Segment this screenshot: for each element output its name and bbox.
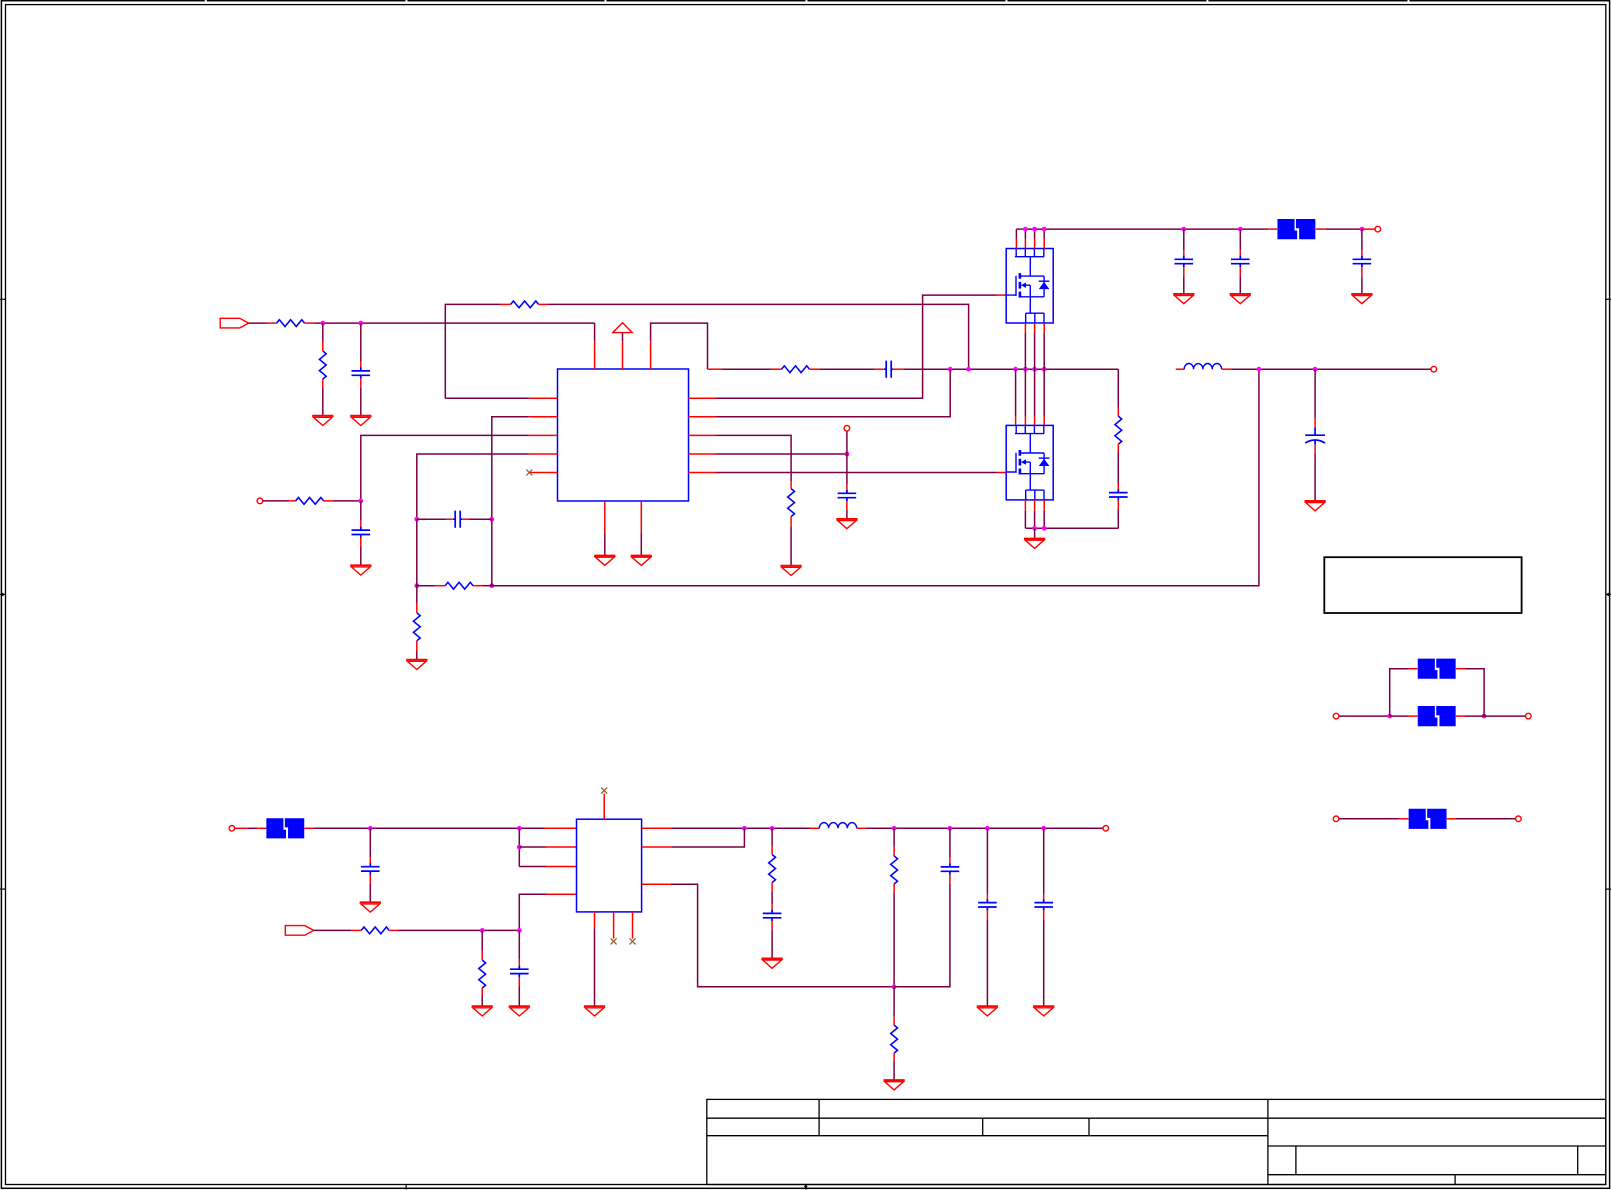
wire R7 right	[483, 585, 492, 587]
pin red U2 pin9	[642, 846, 672, 848]
wire FB3 branch left	[1390, 669, 1409, 716]
pin red C8 bottom	[1361, 267, 1363, 276]
pin red C9 top	[1117, 484, 1119, 493]
wire bst to R4	[722, 368, 772, 370]
junction VIN b	[1032, 227, 1037, 232]
wire U2 pin3 left	[519, 866, 546, 868]
capacitor C7	[1231, 256, 1250, 267]
capacitor C8	[1353, 256, 1372, 267]
wire pin13 to Q1 gate	[717, 295, 997, 398]
pin red C11 bottom	[369, 875, 371, 884]
resistor R10	[361, 927, 389, 934]
capacitor C13	[763, 910, 782, 921]
wire pin3 to EN node	[361, 435, 529, 501]
junction FB pair left	[1387, 714, 1392, 719]
pin red R12 bottom	[771, 883, 773, 892]
pin red C14 top	[949, 858, 951, 867]
resistor R2	[319, 351, 326, 379]
wire C6 gnd	[1183, 276, 1185, 294]
junction VIN c	[1042, 227, 1047, 232]
wire R6 gnd	[416, 651, 418, 660]
port P11 left	[1333, 816, 1339, 822]
wire C11 top	[369, 828, 371, 857]
transistor Q1	[1006, 249, 1053, 324]
capacitor C15	[978, 899, 997, 910]
pin red R14 bottom	[893, 1053, 895, 1062]
zone gaps top border	[205, 0, 1410, 2]
junction C11 tap	[368, 826, 373, 831]
pin red U1 pin1	[529, 397, 558, 399]
capacitor C12	[510, 966, 529, 977]
pin red U1 pin4	[529, 453, 558, 455]
pin red Q1 drain stubs	[1016, 239, 1044, 249]
ground below C3	[350, 565, 371, 575]
wire U1 pin16 up	[594, 323, 596, 341]
pin red C6 bottom	[1183, 267, 1185, 276]
junction R13 tap	[892, 826, 897, 831]
port P7 adj	[285, 926, 313, 936]
wire R3 to SW line	[548, 304, 968, 369]
junction SW c	[1032, 367, 1037, 372]
junction R11 tap	[480, 928, 485, 933]
pin red R1 right	[305, 322, 315, 324]
pin red C13 top	[771, 904, 773, 913]
resistor R4	[782, 366, 810, 373]
pin red C4 left	[446, 518, 452, 520]
junction C8 tap	[1360, 227, 1365, 232]
junction U2 en	[517, 845, 522, 850]
wire R6 top	[416, 586, 418, 604]
wire R9 to C9	[1117, 452, 1119, 484]
pin red C14 bottom	[949, 875, 951, 884]
pin red C7 top	[1239, 250, 1241, 259]
wire C8 gnd	[1361, 276, 1363, 294]
resistor R3	[511, 301, 539, 308]
wire R1 to node IN	[314, 322, 594, 324]
pin red U2 pin gnd	[594, 912, 596, 928]
pin red R11 bottom	[481, 988, 483, 995]
pin red R13 top	[893, 847, 895, 856]
pin red C13 bottom	[771, 921, 773, 930]
port P12 right	[1516, 816, 1522, 822]
wire R5 to EN node	[333, 500, 361, 502]
capacitor C2	[884, 361, 894, 378]
wire pair to port	[1484, 715, 1525, 717]
pin red R13 bottom	[893, 884, 895, 893]
pin red U2 pin3	[546, 866, 577, 868]
ground U2	[584, 1006, 605, 1016]
pin red R9 top	[1117, 408, 1119, 416]
resistor R11	[479, 960, 486, 988]
junction sw2 link	[742, 826, 747, 831]
pin red Q2 drain stubs	[1016, 416, 1045, 425]
wire R10 to dividers	[399, 929, 520, 931]
capacitor C16	[1034, 899, 1053, 910]
pin red R14 top	[893, 1017, 895, 1025]
pin red R4 left	[772, 368, 782, 370]
pin red R5 left	[290, 500, 296, 502]
wire C12 gnd	[518, 986, 520, 1006]
wire R11 top	[481, 930, 483, 950]
pin red U2 pin8	[642, 827, 672, 829]
pin red FB4 left	[1409, 715, 1418, 717]
junction C7 tap	[1238, 227, 1243, 232]
wire FB col left	[416, 519, 418, 586]
capacitor C14	[941, 864, 960, 875]
wire FB4 out	[1465, 715, 1484, 717]
resistor R7	[445, 582, 473, 589]
pin red FB1 left	[1268, 228, 1277, 230]
pin red C2 left	[875, 368, 884, 370]
capacitor C6	[1175, 256, 1194, 267]
ground below C12	[509, 1006, 530, 1016]
wire C13 gnd	[771, 930, 773, 958]
junction fb2 node	[892, 984, 897, 989]
wire L1 to VOUT	[1232, 368, 1431, 370]
port P9 left	[1333, 713, 1339, 719]
junction port P4	[845, 452, 850, 457]
wire pin6 to Q2 gate	[717, 472, 997, 474]
junction FB lower right	[489, 583, 494, 588]
wire R2 top	[322, 323, 324, 342]
zone tick left C	[0, 888, 6, 890]
pin red C7 bottom	[1239, 267, 1241, 276]
pin red R3 right	[539, 303, 549, 305]
pin red Q1 source stubs	[1025, 323, 1044, 333]
junction C1 tap	[358, 321, 363, 326]
pin red R12 top	[771, 845, 773, 854]
junction SW b	[1023, 367, 1028, 372]
pin red Q1 gate	[997, 294, 1007, 296]
wire FB1 to port	[1326, 228, 1362, 230]
port P5 vout	[1431, 366, 1437, 372]
junction C16 tap	[1041, 826, 1046, 831]
pin red C1 top	[360, 362, 362, 371]
no-connect U2 pin7	[601, 788, 607, 794]
capacitor C11	[361, 863, 380, 874]
pin red C10 bottom	[1314, 445, 1316, 454]
pin red R8 top	[790, 481, 792, 488]
capacitor C3	[352, 527, 371, 538]
wire C12 top	[518, 930, 520, 959]
junction FB upper right	[489, 517, 494, 522]
ferrite bead FB3	[1418, 659, 1456, 679]
capacitor C5	[838, 490, 857, 501]
wire VCC stem	[622, 333, 624, 342]
ferrite bead FB5	[1409, 809, 1447, 829]
inductor L1	[1184, 364, 1221, 370]
wire P9 to split	[1339, 715, 1390, 717]
ferrite bead FB2	[266, 818, 304, 838]
pin red U1 pin11	[689, 434, 717, 436]
transistor Q2	[1006, 425, 1053, 500]
pin red C15 top	[986, 894, 988, 903]
title block	[707, 1099, 1606, 1184]
pin red C12 top	[518, 960, 520, 969]
pin red C3 bottom	[360, 538, 362, 547]
resistor R1	[277, 320, 305, 327]
pin red R9 bottom	[1117, 444, 1119, 451]
junction SW d	[1042, 367, 1047, 372]
pin red P6 to FB2	[235, 827, 248, 829]
wire R11 gnd	[481, 996, 483, 1007]
pin red U2 pin5 nc	[613, 912, 615, 939]
zone tick left A	[0, 298, 6, 300]
junction VOUT fb	[1257, 367, 1262, 372]
no-connect U2 pin6	[630, 938, 636, 944]
capacitor C4	[453, 511, 463, 528]
pin red C15 bottom	[986, 910, 988, 919]
wire R7 left	[417, 585, 435, 587]
IC U1	[558, 369, 689, 501]
pin red U1 pin6	[689, 472, 717, 474]
ground below R14	[884, 1080, 905, 1090]
no-connect U2 pin5	[611, 938, 617, 944]
ground below R11	[472, 1006, 493, 1016]
junction C12 tap	[517, 928, 522, 933]
wire C16 top	[1043, 828, 1045, 893]
no-connect U1 pin5	[526, 470, 532, 476]
port P1 input	[220, 318, 248, 328]
zone tick right center	[1606, 593, 1611, 597]
wire U2 pin2 left	[519, 846, 546, 848]
junction C14 tap	[948, 826, 953, 831]
junction snubber2 tap	[770, 826, 775, 831]
wire C16 gnd	[1043, 920, 1045, 1007]
wire FB5 to port	[1456, 818, 1515, 820]
ground below C11	[360, 902, 381, 912]
pin red R6 bottom	[416, 641, 418, 651]
port P2 enable	[257, 498, 263, 504]
wire EN to C3	[360, 501, 362, 521]
wire U2 gnd	[594, 928, 596, 1006]
pin red U1 pin2	[529, 416, 558, 418]
wire P11 to FB5	[1339, 818, 1399, 820]
port P6 input2	[229, 826, 235, 832]
resistor R12	[769, 855, 776, 883]
ground below C16	[1033, 1006, 1054, 1016]
ground below R6	[406, 660, 427, 670]
pin red U2 pin6 nc	[632, 912, 634, 939]
pin red U1 pin13	[689, 397, 717, 399]
junction PGND a	[1032, 526, 1037, 531]
ferrite bead FB4	[1418, 706, 1456, 726]
wire U2 en link	[518, 828, 520, 866]
capacitor C1	[352, 368, 371, 379]
pin red C9 bottom	[1117, 500, 1119, 509]
wire U2 pin4 left	[519, 894, 546, 930]
wire C14 top	[949, 828, 951, 858]
wire C7 gnd	[1239, 276, 1241, 294]
wire P4 node to C5	[846, 454, 848, 484]
zone tick right A	[1606, 298, 1611, 300]
wire C6 top	[1183, 229, 1185, 250]
junction PGND b	[1042, 526, 1047, 531]
pin red C8 top	[1361, 250, 1363, 259]
junction FB pair right	[1482, 714, 1487, 719]
junction SW a	[1013, 367, 1018, 372]
ground below C7	[1230, 294, 1251, 304]
wire C4 right	[469, 518, 492, 520]
wire U2 out bus	[672, 827, 810, 829]
pin red C3 top	[360, 521, 362, 530]
junction EN node	[358, 499, 363, 504]
wire pin9 to bus	[672, 828, 744, 847]
pin red C16 bottom	[1043, 910, 1045, 919]
wire PGND bus	[1025, 527, 1118, 529]
wire pin10 to fb2 bus	[671, 884, 894, 987]
wire pin1 left	[445, 397, 529, 399]
zone tick right C	[1606, 888, 1611, 890]
pin red C4 right	[463, 518, 469, 520]
pin red Q2 source stubs	[1025, 500, 1044, 511]
pin red R2 bottom	[322, 379, 324, 388]
junction C10 tap	[1313, 367, 1318, 372]
ground below C13	[762, 959, 783, 969]
pin red U2 pin1	[545, 827, 577, 829]
IC U2	[577, 819, 642, 912]
junction pin10 riser	[948, 367, 953, 372]
pin red U2 pin4	[546, 893, 577, 895]
ground below R8	[781, 566, 802, 576]
pin red R10 left	[351, 929, 361, 931]
wire P4 down	[846, 431, 848, 454]
wire pin11 to R8	[717, 435, 792, 481]
resistor R6	[413, 613, 420, 641]
wire C7 top	[1239, 229, 1241, 250]
ground U1 pin8	[594, 556, 615, 566]
pin red C1 bottom	[360, 379, 362, 388]
wire gnd stem Q2	[1034, 528, 1036, 538]
zone tick bottom 1	[405, 1185, 407, 1190]
wire VIN bus	[1016, 228, 1268, 230]
ground below C6	[1173, 294, 1194, 304]
wire FB3 branch right	[1465, 669, 1484, 716]
wire C14 to fb2 bus	[894, 884, 950, 987]
pin red U1 pin15	[622, 341, 624, 369]
pin red C10 top	[1314, 418, 1316, 428]
wire Q1 source to SW	[1025, 333, 1044, 369]
wire R13 to fb2 bus	[893, 893, 895, 986]
pin red R3 left	[501, 303, 511, 305]
wire pin2 to FB upper	[492, 417, 529, 519]
resistor R9	[1115, 416, 1122, 444]
resistor R5	[296, 498, 324, 505]
capacitor C9	[1109, 489, 1128, 500]
pin red U1 pin8	[604, 501, 606, 533]
pin red U2 pin7 top	[603, 794, 605, 820]
pin red U1 pin5	[529, 472, 557, 474]
pin red to P3	[1362, 228, 1375, 230]
junction R2 tap	[320, 321, 325, 326]
wire P2 to R5	[263, 500, 290, 502]
wire pin10 to port node	[717, 453, 847, 455]
pin red L2 right	[857, 827, 867, 829]
pin red R7 left	[435, 585, 446, 587]
pin red R8 bottom	[790, 517, 792, 527]
pin red R4 right	[810, 368, 820, 370]
pin red Q2 gate	[997, 472, 1006, 474]
wire R4 to C2	[819, 368, 875, 370]
pin red bst corner	[708, 368, 723, 370]
wire C3 gnd	[360, 547, 362, 565]
junction C15 tap	[985, 826, 990, 831]
pin red FB5 right	[1447, 818, 1456, 820]
wire C11 gnd	[369, 884, 371, 903]
wire Q1 drain risers	[1016, 229, 1044, 238]
pin red U1 pin9	[640, 501, 642, 533]
wire R8 gnd	[790, 527, 792, 566]
wire pin9 gnd	[640, 533, 642, 556]
pin red FB4 right	[1456, 715, 1465, 717]
resistor R13	[891, 856, 898, 884]
pin red C5 top	[846, 484, 848, 493]
pin red U1 pin10	[689, 453, 717, 455]
wire pin12 to SW	[717, 369, 951, 417]
ground below C10	[1305, 501, 1326, 511]
pin red FB2 right	[304, 827, 314, 829]
port P10 right	[1526, 713, 1532, 719]
port P8 vout2	[1103, 826, 1109, 832]
junction U2 vin	[517, 826, 522, 831]
pin red C16 top	[1043, 894, 1045, 903]
pin red R2 top	[322, 342, 324, 351]
wire R13 top	[893, 828, 895, 847]
wire R14 top	[893, 987, 895, 1017]
pin red FB3 left	[1409, 668, 1418, 670]
pin red C11 top	[369, 857, 371, 866]
pin red U1 pin14	[650, 341, 652, 369]
ground below C15	[977, 1006, 998, 1016]
wire C1 to gnd	[360, 388, 362, 416]
wire U1 pin14 bst	[651, 323, 708, 369]
pin red C5 bottom	[846, 501, 848, 510]
port P4 mode	[844, 426, 850, 432]
pin red R10 right	[389, 929, 398, 931]
wire pin4 to FB lower	[417, 454, 529, 519]
port P3 vin	[1375, 226, 1381, 232]
pin red U1 pin16	[594, 341, 596, 369]
pin red FB3 right	[1456, 668, 1465, 670]
pin red C2 right	[894, 368, 904, 370]
wire R9 top	[1117, 369, 1119, 408]
ground below R2	[312, 416, 333, 426]
pin red U1 pin3	[529, 434, 558, 436]
pin red R7 right	[473, 585, 482, 587]
wire C1 top	[360, 323, 362, 361]
inductor L2	[819, 823, 856, 829]
junction C6 tap	[1181, 227, 1186, 232]
zone tick left center	[0, 593, 6, 597]
wire C2 to SW node	[904, 368, 1119, 370]
wire C4 left	[417, 518, 447, 520]
wire C5 gnd	[846, 510, 848, 519]
notes box	[1324, 557, 1521, 613]
wire P7 to R10	[314, 929, 352, 931]
ground below C8	[1351, 294, 1372, 304]
zone tick bottom center	[804, 1185, 808, 1190]
wire C15 gnd	[986, 920, 988, 1007]
wire node to R3	[445, 304, 500, 398]
pin red U2 pin10	[642, 883, 671, 885]
ferrite bead FB1	[1277, 219, 1315, 239]
junction FB upper left	[414, 517, 419, 522]
ground U1 pin9	[631, 556, 652, 566]
wire FB2 to U2	[314, 827, 545, 829]
wire C15 top	[986, 828, 988, 893]
pin red L1 left	[1176, 368, 1184, 370]
wire to FB4	[1390, 715, 1409, 717]
